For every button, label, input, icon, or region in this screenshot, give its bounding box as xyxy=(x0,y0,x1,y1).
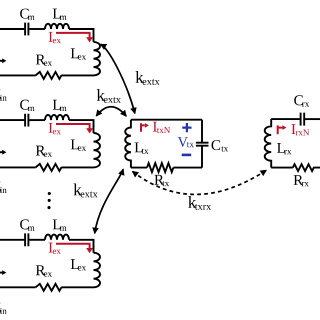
label kextx (resonator 3) xyxy=(74,184,82,196)
label ItxN xyxy=(153,122,157,132)
label Ltx xyxy=(135,142,143,152)
label Vtx xyxy=(178,137,188,147)
resistor Rtx xyxy=(147,163,173,172)
label Lex (loop 2) xyxy=(71,139,79,149)
wire: inductor Lm to top-right corner (loop 2) xyxy=(69,120,94,133)
wire: inductor Lm to top-right corner (loop 1) xyxy=(69,29,94,42)
capacitor Crx xyxy=(301,113,305,126)
current arrow IrxN xyxy=(278,125,283,134)
inductor Lm (loop 3) xyxy=(45,235,69,240)
current arrow Iex (loop 2) xyxy=(56,124,90,129)
node: transmitter TX loop xyxy=(125,120,228,186)
label Crx xyxy=(294,95,303,105)
label ktxrx xyxy=(188,196,196,208)
wire: TX top side xyxy=(131,119,202,121)
label Rtx xyxy=(154,175,164,185)
label Rex (loop 2) xyxy=(36,146,46,156)
coupling arrow ktxrx (TX to RX, dashed) xyxy=(133,170,267,194)
inductor Lrx xyxy=(265,119,272,168)
wire: RX top-left to capacitor Crx xyxy=(271,118,300,120)
current arrow Iex (loop 3) xyxy=(56,244,90,249)
node: extender resonator 2 xyxy=(0,100,100,193)
wire: TX bottom-left to resistor Rtx xyxy=(131,167,147,169)
label Iex (loop 2) xyxy=(49,123,53,133)
wire: capacitor Cm to inductor Lm (loop 2) xyxy=(29,119,45,121)
label Cm (loop 1) xyxy=(20,9,29,19)
node: extender resonator 3 xyxy=(0,219,100,314)
voltage plus sign Vtx xyxy=(182,123,191,132)
wire: resistor Rtx to TX bottom-right xyxy=(173,167,202,169)
capacitor Cm (loop 2) xyxy=(25,114,28,127)
label kextx (resonator 2) xyxy=(97,89,105,101)
label Zin (loop 2) xyxy=(0,182,1,192)
inductor Lm (loop 1) xyxy=(45,24,69,29)
voltage minus sign Vtx xyxy=(182,154,192,157)
inductor Lex (loop 3) xyxy=(94,253,101,288)
current arrow ItxN xyxy=(141,123,145,132)
wire: bottom-right corner to resistor Rex (loop 2) xyxy=(61,166,93,168)
resistor Rrx and wire to right edge xyxy=(293,164,320,171)
current arrow Iex (loop 1) xyxy=(56,33,90,38)
input arrow (loop 2) xyxy=(0,151,3,153)
label Lm (loop 2) xyxy=(53,100,61,110)
label kextx (resonator 1) xyxy=(136,71,144,83)
wire: top-left segment to capacitor Cm (loop 1) xyxy=(0,28,24,30)
wire: bottom-right corner to resistor Rex (loop 3) xyxy=(61,286,93,288)
label Rex (loop 1) xyxy=(36,55,46,65)
wire: RX bottom-left to resistor Rrx xyxy=(271,167,293,169)
node: receiver RX loop xyxy=(265,95,320,186)
wire: capacitor Crx to right edge xyxy=(305,118,320,120)
coupling arrow kextx (resonator 2 to TX) xyxy=(96,107,126,116)
wire: TX right side upper xyxy=(201,120,203,142)
label Cm (loop 2) xyxy=(20,100,29,110)
node: extender resonator 1 xyxy=(0,9,100,101)
capacitor Ctx xyxy=(196,143,209,146)
label Lex (loop 1) xyxy=(71,48,79,58)
label IrxN xyxy=(292,124,296,134)
wire: capacitor Cm to inductor Lm (loop 1) xyxy=(29,28,45,30)
wire: bottom-right corner to resistor Rex (loop 1) xyxy=(61,74,93,76)
wire: capacitor Cm to inductor Lm (loop 3) xyxy=(29,239,45,241)
label Iex (loop 3) xyxy=(49,243,53,253)
capacitor Cm (loop 3) xyxy=(25,233,28,246)
wire: resistor Rex to left edge (loop 3) xyxy=(0,286,36,288)
label Zin (loop 3) xyxy=(0,303,1,313)
label Iex (loop 1) xyxy=(49,32,53,42)
wire: TX right side lower xyxy=(201,146,203,167)
wire: resistor Rex to left edge (loop 2) xyxy=(0,166,36,168)
resistor Rex (loop 1) xyxy=(36,72,62,79)
label Zin (loop 1) xyxy=(0,89,1,99)
inductor Lex (loop 1) xyxy=(94,42,101,76)
label Rex (loop 3) xyxy=(36,265,46,275)
input arrow (loop 3) xyxy=(0,272,3,274)
label Lm (loop 3) xyxy=(53,219,61,229)
ellipsis (more resonators) xyxy=(47,192,50,209)
inductor Lex (loop 2) xyxy=(94,133,101,167)
input arrow (loop 1) xyxy=(0,60,3,62)
coupling arrow kextx (resonator 1 to TX) xyxy=(101,44,135,113)
inductor Lm (loop 2) xyxy=(45,115,69,120)
wire: top-left segment to capacitor Cm (loop 2) xyxy=(0,119,24,121)
coupling arrow kextx (TX to resonator 3) xyxy=(95,169,124,233)
label Lm (loop 1) xyxy=(53,9,61,19)
label Cm (loop 3) xyxy=(20,219,29,229)
label Rrx xyxy=(294,175,304,185)
wire: top-left segment to capacitor Cm (loop 3) xyxy=(0,239,24,241)
label Lrx xyxy=(277,143,285,153)
resistor Rex (loop 3) xyxy=(36,284,62,291)
label Ctx xyxy=(212,140,221,150)
capacitor Cm (loop 1) xyxy=(25,23,28,36)
wire: inductor Lm to top-right corner (loop 3) xyxy=(69,240,94,253)
resistor Rex (loop 2) xyxy=(36,164,62,171)
inductor Ltx xyxy=(125,120,131,168)
wire: resistor Rex to left edge (loop 1) xyxy=(0,74,36,76)
label Lex (loop 3) xyxy=(71,259,79,269)
